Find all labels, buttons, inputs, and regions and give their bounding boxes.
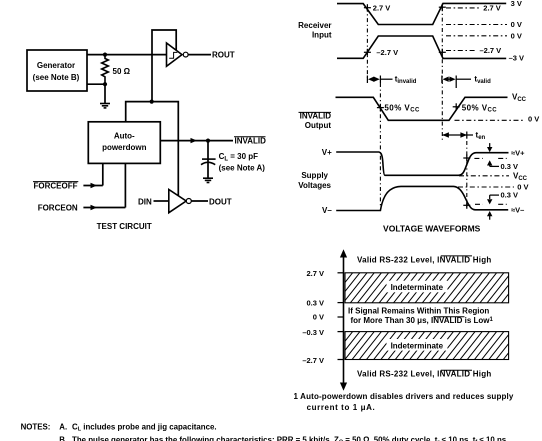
svg-text:0 V: 0 V (511, 32, 522, 41)
svg-text:A.: A. (59, 423, 67, 432)
svg-text:for More Than 30 μs, INVALID i: for More Than 30 μs, INVALID is Low1 (351, 316, 494, 325)
svg-text:valid: valid (477, 79, 491, 85)
svg-text:Indeterminate: Indeterminate (391, 342, 444, 351)
svg-text:0.3 V: 0.3 V (501, 191, 519, 200)
svg-text:Generator: Generator (37, 61, 75, 70)
svg-text:Valid RS-232 Level, INVALID Hi: Valid RS-232 Level, INVALID High (357, 370, 492, 379)
svg-text:Receiver: Receiver (298, 21, 331, 30)
svg-text:≈V+: ≈V+ (511, 148, 525, 157)
svg-text:Auto-: Auto- (114, 132, 135, 141)
svg-text:B.: B. (59, 435, 67, 441)
svg-text:VOLTAGE WAVEFORMS: VOLTAGE WAVEFORMS (383, 223, 481, 233)
svg-text:Input: Input (312, 31, 332, 40)
svg-text:NOTES:: NOTES: (21, 423, 51, 432)
svg-text:DIN: DIN (138, 197, 152, 206)
svg-text:powerdown: powerdown (102, 143, 147, 152)
svg-text:–3 V: –3 V (509, 54, 524, 63)
svg-text:If Signal Remains Within This: If Signal Remains Within This Region (348, 307, 489, 316)
svg-text:Supply: Supply (301, 171, 328, 180)
svg-text:3 V: 3 V (511, 0, 522, 8)
svg-text:DOUT: DOUT (209, 197, 232, 206)
svg-text:0.3 V: 0.3 V (306, 298, 324, 307)
svg-text:ROUT: ROUT (212, 51, 235, 60)
svg-text:–2.7 V: –2.7 V (480, 46, 502, 55)
svg-text:INVALID: INVALID (235, 137, 267, 146)
svg-text:The pulse generator has the fo: The pulse generator has the following ch… (72, 435, 508, 441)
svg-text:2.7 V: 2.7 V (483, 4, 501, 13)
svg-text:(see Note A): (see Note A) (219, 163, 266, 172)
svg-text:2.7 V: 2.7 V (306, 269, 324, 278)
svg-text:–0.3 V: –0.3 V (302, 328, 324, 337)
svg-text:Output: Output (305, 121, 332, 130)
svg-text:Valid RS-232 Level, INVALID Hi: Valid RS-232 Level, INVALID High (357, 255, 492, 264)
svg-text:0 V: 0 V (313, 313, 324, 322)
svg-text:TEST CIRCUIT: TEST CIRCUIT (97, 222, 152, 231)
svg-text:CL includes probe and jig capa: CL includes probe and jig capacitance. (72, 423, 217, 433)
svg-text:2.7 V: 2.7 V (373, 4, 391, 13)
svg-text:≈V–: ≈V– (511, 206, 524, 215)
svg-text:(see Note B): (see Note B) (33, 73, 80, 82)
svg-text:en: en (478, 135, 485, 141)
svg-text:1 Auto-powerdown disables driv: 1 Auto-powerdown disables drivers and re… (294, 392, 514, 401)
svg-text:–2.7 V: –2.7 V (376, 48, 398, 57)
svg-text:0 V: 0 V (511, 20, 522, 29)
svg-text:FORCEON: FORCEON (38, 203, 78, 212)
svg-text:V–: V– (322, 206, 332, 215)
svg-text:0 V: 0 V (528, 114, 539, 123)
svg-text:Indeterminate: Indeterminate (391, 283, 444, 292)
svg-text:50 Ω: 50 Ω (113, 67, 131, 76)
svg-text:INVALID: INVALID (300, 112, 332, 121)
svg-text:invalid: invalid (397, 79, 416, 85)
svg-text:Voltages: Voltages (298, 181, 331, 190)
svg-text:0.3 V: 0.3 V (501, 162, 519, 171)
svg-text:V+: V+ (322, 148, 332, 157)
svg-text:0 V: 0 V (517, 183, 528, 192)
svg-text:current to 1 μA.: current to 1 μA. (307, 403, 376, 412)
svg-text:FORCEOFF: FORCEOFF (34, 181, 78, 190)
svg-text:–2.7 V: –2.7 V (302, 356, 324, 365)
